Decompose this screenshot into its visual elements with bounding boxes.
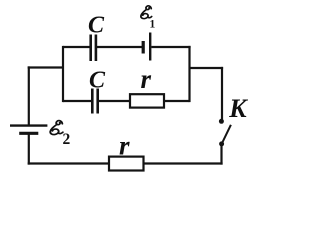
- wire left rail: [62, 46, 64, 102]
- capacitor C1 right plate: [95, 35, 98, 62]
- svg-text:K: K: [228, 94, 248, 123]
- svg-text:C: C: [89, 67, 106, 93]
- wire left outer upper: [28, 66, 30, 125]
- wire bottom right segment: [144, 162, 223, 164]
- wire middle branch middle segment: [99, 100, 130, 102]
- switch K lower contact dot: [219, 141, 224, 146]
- svg-text:r: r: [141, 64, 152, 94]
- resistor r2 box: [109, 157, 144, 171]
- wire top branch right segment: [151, 46, 190, 48]
- capacitor C2 right plate: [96, 89, 99, 114]
- battery E2 long plate: [10, 124, 47, 126]
- label E2 script E: [50, 121, 63, 135]
- battery E1 long plate: [149, 33, 151, 61]
- battery E2 short plate: [19, 132, 38, 135]
- capacitor C1 left plate: [89, 35, 92, 62]
- wire right outer lower: [220, 144, 222, 165]
- wire left connector: [28, 66, 63, 68]
- wire right connector: [190, 67, 224, 69]
- battery E1 short plate: [142, 41, 145, 54]
- label E1 script E: [141, 6, 152, 19]
- wire middle branch left segment: [63, 100, 91, 102]
- svg-text:C: C: [88, 12, 105, 38]
- switch K blade: [222, 125, 231, 143]
- wire bottom left segment: [28, 162, 109, 164]
- svg-text:1: 1: [150, 19, 156, 31]
- wire right outer upper: [221, 67, 223, 120]
- svg-text:r: r: [119, 131, 130, 161]
- svg-text:2: 2: [63, 131, 71, 148]
- resistor r1 box: [130, 94, 164, 107]
- wire left outer lower: [28, 135, 30, 165]
- wire top branch left segment: [63, 46, 90, 48]
- wire right rail: [188, 46, 190, 102]
- switch K upper contact dot: [219, 119, 224, 124]
- wire top branch middle segment: [97, 46, 142, 48]
- capacitor C2 left plate: [91, 89, 94, 114]
- wire middle branch right segment: [164, 100, 190, 102]
